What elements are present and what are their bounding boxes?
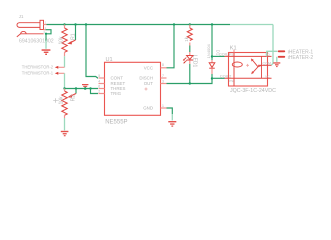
pin THRES stub (99, 88, 105, 90)
node rail D1 drop (211, 23, 213, 25)
resistor R1 wiper wire (75, 25, 77, 41)
node rail CONT drop (85, 23, 87, 25)
resistor R1 (trimmer) (62, 28, 67, 52)
pin RESET stub (99, 83, 105, 85)
node rail R1 top (63, 23, 65, 25)
svg-text:7: 7 (162, 74, 164, 78)
ground below R2 (61, 131, 69, 137)
svg-text:1N4004: 1N4004 (206, 44, 211, 59)
wire R1 bottom to thermistor-2 flag (light) (64, 56, 66, 67)
wire rail to D1 (211, 25, 213, 61)
wire J1 to ground (green) (45, 34, 47, 41)
diode D1 (211, 60, 213, 63)
svg-text:OUT: OUT (144, 81, 154, 86)
resistor R1 wiper arrow (71, 40, 76, 43)
wire rail to CONT pin (86, 25, 98, 79)
relay K1 contact blade (258, 65, 262, 67)
relay K1 coil (233, 53, 235, 63)
origin cross R2 (53, 98, 58, 103)
resistor R3 top stub (189, 25, 191, 29)
resistor R2 top stub (64, 89, 66, 92)
LED LED1 (189, 52, 191, 55)
net flag HEATER-1 (278, 50, 285, 52)
wire R3 to LED1 (189, 46, 191, 53)
svg-text:10k: 10k (59, 96, 65, 105)
svg-text:DISCH: DISCH (139, 76, 153, 81)
svg-text:JQC-3F-1C-24VDC: JQC-3F-1C-24VDC (230, 88, 276, 94)
resistor R1 bottom stub (64, 52, 66, 56)
wire TRIG branch (91, 89, 99, 94)
svg-text:COM: COM (263, 62, 271, 66)
svg-text:NE555P: NE555P (105, 119, 127, 125)
svg-text:GND: GND (143, 106, 153, 111)
pin OUT stub (161, 83, 167, 85)
pin GND stub (161, 107, 167, 109)
connector J1 pin 2 stub (44, 29, 46, 31)
pin VCC stub (161, 67, 167, 69)
wire COIL2 to relay (212, 77, 225, 79)
svg-text:6: 6 (98, 85, 100, 89)
resistor R3 bottom stub (189, 43, 191, 46)
svg-text:J1: J1 (19, 14, 24, 19)
wire VCC to rail (167, 25, 175, 68)
svg-text:U1: U1 (106, 57, 113, 63)
U1 origin cross (145, 88, 148, 91)
svg-text:694106301002: 694106301002 (19, 39, 54, 45)
resistor R2 wiper arrow (71, 94, 76, 97)
pin TRIG stub (99, 93, 105, 95)
wire GND pin to ground (167, 108, 173, 114)
svg-text:TRIG: TRIG (111, 91, 122, 96)
node THRES TRIG branch (89, 87, 91, 89)
svg-text:2: 2 (98, 90, 100, 94)
relay K1 box (229, 53, 268, 87)
wire LED1 to OUT net (189, 64, 191, 84)
wire rail to COM (light) (271, 25, 273, 66)
connector J1 pin 1 stub (44, 24, 47, 26)
svg-text:3: 3 (162, 80, 164, 84)
svg-text:HEATER-2: HEATER-2 (289, 55, 314, 61)
relay K1 coil pin line P$2 (225, 77, 272, 79)
op-amp U1 555 timer box (105, 62, 161, 115)
ground below U1 (168, 121, 176, 127)
wire HEATER-2 to ground (light) (276, 57, 278, 62)
svg-text:5: 5 (98, 74, 100, 78)
LED1 emission arrows (184, 58, 186, 60)
svg-text:CONT: CONT (111, 76, 124, 81)
node COIL1 junction (211, 55, 213, 57)
wire R2 bottom to ground (light) (64, 118, 66, 130)
wire COIL1 to relay (212, 55, 225, 57)
resistor R3 (187, 28, 192, 41)
resistor R2 (trimmer) (62, 91, 67, 115)
pin CONT stub (99, 77, 105, 79)
connector J1 barrel jack body (17, 20, 44, 29)
resistor R1 top stub (64, 25, 66, 29)
wire NO to HEATER-1 (light) (267, 51, 278, 56)
svg-text:NO: NO (265, 53, 270, 57)
svg-text:R1: R1 (71, 33, 77, 40)
capacitor (inverted gnd) on THRES net (82, 84, 88, 87)
pin DISCH stub (161, 77, 167, 79)
svg-text:LED1: LED1 (192, 55, 198, 68)
wire J1 to ground (light) (45, 41, 47, 49)
node OUT LED branch (189, 82, 191, 84)
svg-text:D1: D1 (216, 50, 221, 56)
svg-text:1: 1 (162, 104, 164, 108)
wire thermistor-1 flag down to THRES net (light) (64, 73, 66, 88)
svg-text:THERMISTOR-2: THERMISTOR-2 (22, 65, 54, 70)
node J1 ground junction (45, 33, 47, 35)
wire THRES net horizontal (65, 88, 99, 90)
connector J1 pin 3 switch (17, 31, 44, 36)
wire OUT net (167, 79, 213, 84)
svg-text:K1: K1 (230, 45, 237, 51)
net flag HEATER-2 (278, 56, 285, 58)
node THRES cap (84, 87, 87, 90)
svg-text:VCC: VCC (144, 65, 153, 70)
wire J1 pin2 to pin3 (46, 30, 51, 34)
ground below J1 (42, 49, 51, 55)
svg-text:R2: R2 (71, 95, 77, 102)
svg-text:10k: 10k (59, 36, 65, 45)
node rail R3 top (189, 23, 191, 25)
node THRES R2 (63, 87, 65, 89)
node rail R1 wiper (74, 23, 76, 25)
svg-text:THERMISTOR-1: THERMISTOR-1 (22, 71, 54, 76)
relay K1 coil pin line P$1 (225, 55, 272, 57)
node rail VCC drop (173, 23, 175, 25)
svg-text:8: 8 (162, 63, 164, 67)
wire D1 to COIL2 node (211, 74, 213, 79)
relay K1 origin cross (246, 64, 249, 67)
ground at HEATER-2 (273, 62, 280, 67)
node COIL2 junction (211, 77, 213, 79)
relay K1 COM pin stub (258, 64, 272, 66)
svg-text:4: 4 (98, 80, 100, 84)
resistor R2 wiper wire (75, 89, 77, 94)
wire +24V rail (light part) (230, 24, 273, 26)
resistor R2 bottom stub (64, 115, 66, 118)
node THRES R2 wiper (75, 87, 77, 89)
relay K1 contact bus (261, 56, 263, 78)
svg-text:1k: 1k (184, 36, 189, 42)
wire +24V rail (green part) (47, 24, 231, 26)
